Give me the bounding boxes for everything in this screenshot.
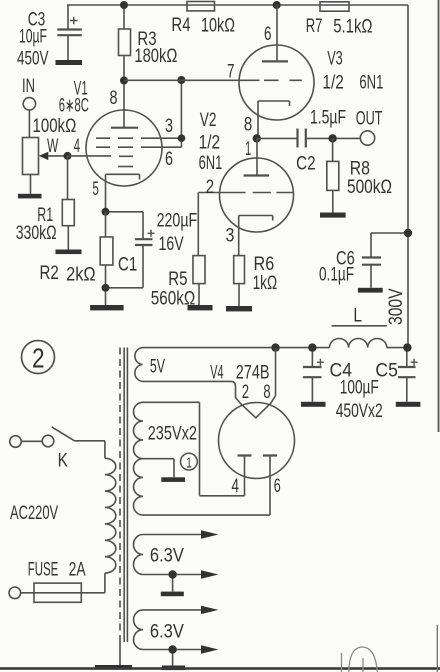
label V1 (74, 79, 88, 100)
svg-text:1kΩ: 1kΩ (253, 273, 278, 294)
tube V4 rectifier (219, 403, 295, 516)
node output V3k/V2a/C2 (253, 134, 261, 142)
node C6/rail (404, 229, 412, 237)
label L (353, 306, 362, 327)
switch K (10, 427, 105, 458)
resistor R6 (234, 256, 245, 306)
svg-text:R2: R2 (40, 263, 59, 284)
node rail/V3 anode (273, 1, 281, 9)
label R2 (40, 263, 59, 284)
node R2 bottom (102, 284, 110, 292)
label C4 (330, 361, 353, 382)
pin 3 V2 (226, 226, 235, 247)
label R2 value (66, 265, 96, 286)
svg-text:2kΩ: 2kΩ (66, 265, 96, 286)
svg-text:4: 4 (74, 136, 81, 157)
winding 5V (135, 348, 240, 403)
tube V1 (68, 81, 182, 212)
svg-text:2: 2 (32, 343, 45, 374)
pin 8 V4 (263, 382, 270, 403)
label V1 type (59, 96, 89, 117)
capacitor C3 (57, 5, 82, 60)
winding 235Vx2 (134, 402, 271, 515)
svg-text:V2: V2 (200, 110, 217, 131)
svg-text:274B: 274B (236, 363, 270, 384)
label C6 (336, 249, 355, 270)
resistor R3 (119, 5, 131, 81)
pin 8 V3c (244, 115, 252, 136)
winding 6.3V first (134, 535, 202, 592)
svg-text:AC220V: AC220V (10, 503, 58, 524)
label R1 (37, 205, 53, 226)
label 6.3V a (150, 546, 184, 567)
winding primary (105, 458, 116, 593)
winding 6.3V second (134, 610, 202, 666)
pin 5 V1 (93, 179, 99, 200)
svg-text:W: W (47, 136, 58, 157)
svg-text:R4: R4 (171, 15, 191, 36)
svg-text:6.3V: 6.3V (150, 546, 184, 567)
wire to V3 grid (124, 79, 260, 81)
svg-text:1/2: 1/2 (199, 133, 221, 154)
ground R6 (226, 306, 252, 311)
wire B+ filtered line (143, 347, 409, 349)
figure label circled 2 (22, 341, 55, 374)
svg-text:6N1: 6N1 (199, 153, 223, 174)
label R5 (168, 269, 187, 290)
resistor R1 (62, 156, 74, 250)
ground R8 (320, 213, 346, 218)
ground CT (161, 477, 185, 482)
resistor R8 (327, 138, 339, 212)
svg-text:2: 2 (206, 177, 214, 198)
pin 6 V4 (274, 476, 281, 497)
svg-text:8: 8 (263, 382, 270, 403)
svg-text:235Vx2: 235Vx2 (148, 424, 197, 445)
label C2 (296, 154, 316, 175)
label C2 value (310, 108, 346, 129)
svg-text:16V: 16V (159, 234, 184, 255)
ground 6.3Vb (162, 666, 185, 671)
label V3 half (322, 73, 344, 94)
node 6.3Vb (168, 645, 176, 653)
svg-text:180kΩ: 180kΩ (134, 46, 177, 67)
label pot value (33, 116, 77, 137)
label V2 type (199, 153, 223, 174)
label V3 type (359, 73, 383, 94)
node C2/R8 (328, 134, 336, 142)
label V2 (200, 110, 217, 131)
svg-text:V3: V3 (327, 49, 343, 70)
label AC220V (10, 503, 58, 524)
svg-text:7: 7 (227, 62, 235, 83)
node C5 top (403, 343, 411, 351)
label R4 (171, 15, 191, 36)
pin 4 V1 (74, 136, 81, 157)
svg-text:10µF: 10µF (19, 27, 47, 48)
inductor L (330, 326, 387, 348)
svg-text:2A: 2A (69, 560, 86, 581)
label C5 (375, 361, 398, 382)
ground R1 (56, 250, 82, 255)
svg-text:300V: 300V (386, 288, 407, 325)
label OUT (356, 109, 383, 130)
label 6.3V b (150, 622, 184, 643)
label 5V (150, 357, 165, 378)
ground R2 (90, 305, 124, 310)
label R1 value (16, 223, 57, 244)
scan artifact right edge (437, 0, 438, 672)
svg-text:5.1kΩ: 5.1kΩ (333, 17, 372, 38)
svg-text:OUT: OUT (356, 109, 383, 130)
svg-text:IN: IN (22, 76, 35, 97)
node V1 cathode (102, 208, 110, 216)
label R3 value (134, 46, 177, 67)
label C1 value (157, 211, 198, 232)
ground C5 (396, 402, 421, 407)
svg-text:C1: C1 (118, 255, 137, 276)
svg-text:500kΩ: 500kΩ (347, 177, 392, 198)
pin 4 V4 (232, 476, 240, 497)
svg-text:450Vx2: 450Vx2 (336, 401, 383, 422)
label C1 (118, 255, 137, 276)
capacitor C6 (362, 233, 408, 288)
pin 6 V3 (264, 24, 272, 45)
svg-text:8: 8 (244, 115, 252, 136)
capacitor C2 (257, 129, 361, 148)
pin 7 V3 (227, 62, 235, 83)
label C3 value (19, 27, 47, 48)
wire V1 anode pins join (180, 80, 182, 138)
pin 8 V1 (110, 88, 118, 109)
svg-text:FUSE: FUSE (28, 560, 59, 581)
svg-text:450V: 450V (17, 49, 49, 70)
svg-text:6.3V: 6.3V (150, 622, 184, 643)
svg-text:100kΩ: 100kΩ (33, 116, 77, 137)
ground C4 (301, 402, 326, 407)
arrow 6.3Vb bottom (201, 645, 219, 653)
svg-text:10kΩ: 10kΩ (201, 16, 235, 37)
ground core shield (95, 665, 132, 670)
node V1 anode (120, 77, 128, 85)
svg-text:220µF: 220µF (157, 211, 198, 232)
node rail/R3 (120, 1, 128, 9)
svg-text:L: L (353, 306, 362, 327)
svg-text:330kΩ: 330kΩ (16, 223, 57, 244)
ground R5 (188, 305, 213, 310)
svg-text:6: 6 (264, 24, 272, 45)
svg-text:C5: C5 (375, 361, 398, 382)
node wiper (64, 152, 72, 160)
label R5 value (151, 289, 195, 310)
label IN (22, 76, 35, 97)
svg-text:2: 2 (242, 382, 249, 403)
arrow 6.3Vb top (201, 606, 219, 614)
svg-text:C2: C2 (296, 154, 316, 175)
svg-text:6: 6 (165, 149, 173, 170)
svg-text:K: K (58, 451, 69, 472)
node 1 circled (181, 453, 198, 471)
scan artifact bottom edge (0, 667, 440, 670)
svg-text:1: 1 (245, 139, 251, 160)
transformer core (120, 348, 127, 666)
svg-text:3: 3 (165, 116, 173, 137)
label C4C5 volt (336, 401, 383, 422)
svg-text:1/2: 1/2 (322, 73, 344, 94)
svg-text:R5: R5 (168, 269, 187, 290)
label 235Vx2 (148, 424, 197, 445)
resistor R2 (100, 212, 113, 305)
tube V2 (198, 138, 293, 255)
resistor R5 (193, 193, 205, 306)
label C1 volt (159, 234, 184, 255)
tube V3 (239, 5, 314, 138)
label FUSE rating (69, 560, 86, 581)
label R4 value (201, 16, 235, 37)
svg-text:6N1: 6N1 (359, 73, 383, 94)
label R7 (306, 16, 323, 37)
label R3 (137, 29, 156, 50)
label R8 value (347, 177, 392, 198)
capacitor C5 (398, 348, 418, 402)
label C3 voltage (17, 49, 49, 70)
capacitor C1 (106, 212, 155, 288)
wire V4 pin8 (271, 348, 276, 403)
terminal OUT (360, 131, 374, 145)
fuse (9, 583, 105, 602)
svg-text:4: 4 (232, 476, 240, 497)
resistor R7 (320, 2, 349, 11)
svg-text:V4: V4 (210, 363, 224, 384)
label C3 (28, 10, 46, 31)
svg-text:560kΩ: 560kΩ (151, 289, 195, 310)
svg-text:1.5µF: 1.5µF (310, 108, 346, 129)
wire right rail (407, 5, 409, 348)
label V2 half (199, 133, 221, 154)
pin 2 V4 (242, 382, 249, 403)
ground pot (18, 194, 42, 199)
pin 2 V2 (206, 177, 214, 198)
node B+/5V (271, 343, 279, 351)
scan artifact bottom right curves (342, 647, 378, 672)
label R6 (254, 254, 275, 275)
pin 6 V1 (165, 149, 173, 170)
arrow 6.3Va top (201, 530, 219, 538)
arrow 6.3Va bottom (201, 570, 219, 578)
terminal IN (23, 98, 35, 138)
node pin3/6 join (177, 76, 185, 142)
wire anode4 to winding top (200, 402, 245, 496)
ground 6.3Va (161, 592, 184, 597)
svg-text:5: 5 (93, 179, 99, 200)
node C4 top (308, 343, 316, 351)
potentiometer 100k (23, 138, 68, 194)
svg-text:1: 1 (186, 454, 192, 471)
svg-text:8: 8 (110, 88, 118, 109)
svg-text:5V: 5V (150, 357, 165, 378)
capacitor C4 (303, 348, 324, 402)
svg-text:100µF: 100µF (340, 378, 379, 399)
pin 1 V2 (245, 139, 251, 160)
label V4 (210, 363, 224, 384)
node 6.3Va (168, 570, 176, 578)
label 300V rotated (386, 288, 407, 325)
wire top B+ rail (67, 4, 408, 6)
label R6 value (253, 273, 278, 294)
ground C3 (56, 60, 83, 65)
label V4 type (236, 363, 270, 384)
svg-text:R6: R6 (254, 254, 275, 275)
svg-text:R7: R7 (306, 16, 323, 37)
svg-text:6∗8C: 6∗8C (59, 96, 89, 117)
pin 3 V1 (165, 116, 173, 137)
label W (47, 136, 58, 157)
label FUSE (28, 560, 59, 581)
ground C6 (358, 288, 383, 293)
resistor R4 (187, 2, 215, 11)
label C6 value (319, 265, 354, 286)
svg-text:3: 3 (226, 226, 235, 247)
svg-text:6: 6 (274, 476, 281, 497)
label R8 (350, 159, 370, 180)
label K (58, 451, 69, 472)
label C4C5 value (340, 378, 379, 399)
label R7 value (333, 17, 372, 38)
svg-text:0.1µF: 0.1µF (319, 265, 354, 286)
label V3 (327, 49, 343, 70)
